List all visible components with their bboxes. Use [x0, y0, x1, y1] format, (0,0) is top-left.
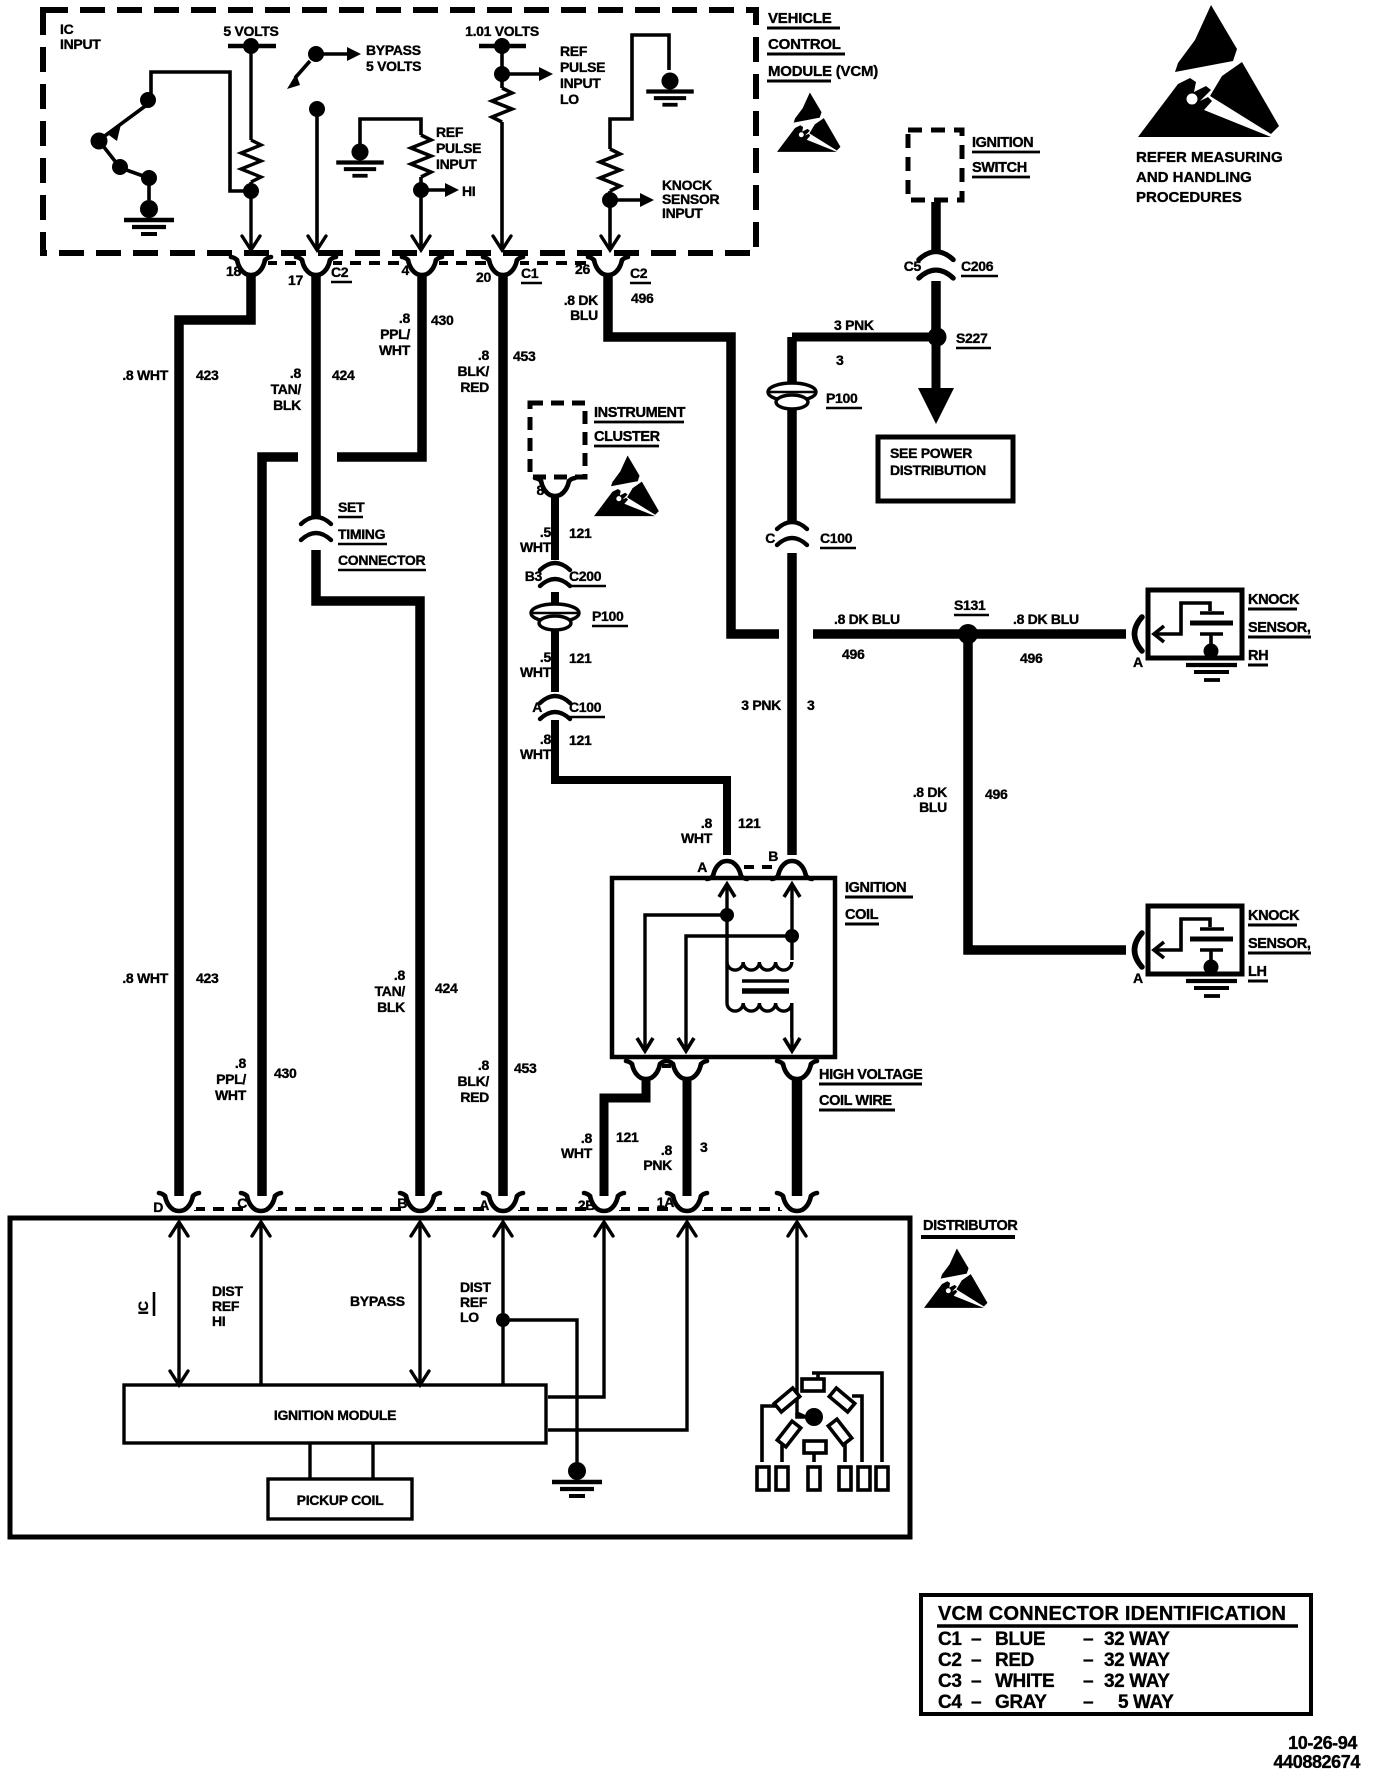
splice S131 [954, 597, 989, 644]
REF PULSE INPUT HI network [360, 119, 446, 249]
svg-text:C2: C2 [630, 265, 648, 281]
ignition coil box [612, 878, 835, 1057]
svg-text:INSTRUMENT: INSTRUMENT [594, 405, 686, 421]
svg-text:C200: C200 [569, 568, 602, 584]
svg-text:WHT: WHT [520, 664, 552, 680]
primary winding [727, 962, 792, 970]
svg-text:453: 453 [514, 1060, 537, 1076]
svg-text:C5: C5 [904, 258, 922, 274]
svg-text:.8: .8 [478, 1057, 490, 1073]
ref pulse lo branch [492, 46, 540, 249]
svg-text:P100: P100 [826, 390, 858, 406]
svg-text:–: – [971, 1650, 981, 1671]
svg-text:C2: C2 [938, 1650, 962, 1671]
svg-text:424: 424 [332, 367, 355, 383]
node 1.01 VOLTS [465, 23, 539, 54]
svg-text:.8 DK BLU: .8 DK BLU [1013, 611, 1079, 627]
svg-text:BLK: BLK [273, 397, 301, 413]
wire 453 BLK/RED : pin20 to distributor A [498, 274, 508, 1202]
VCM dashed box [43, 10, 756, 253]
svg-text:B3: B3 [525, 568, 543, 584]
svg-text:CONNECTOR: CONNECTOR [338, 552, 425, 568]
svg-text:.5: .5 [540, 649, 552, 665]
distributor pin dashes [194, 1207, 782, 1211]
svg-text:PPL/: PPL/ [216, 1071, 246, 1087]
svg-text:18: 18 [226, 263, 241, 279]
svg-text:A: A [479, 1197, 489, 1213]
upper-left tower [774, 1388, 799, 1412]
svg-text:REF: REF [212, 1298, 240, 1314]
svg-text:IC: IC [135, 1301, 151, 1315]
ESD symbol (cluster) [594, 455, 659, 516]
wire 430 PPL/WHT : pin4 to distributor C (break at 424 crossing) [337, 274, 422, 457]
label IC INPUT [60, 21, 101, 52]
svg-text:.8: .8 [478, 347, 490, 363]
date stamp [1274, 1733, 1361, 1772]
svg-text:IC: IC [60, 21, 74, 37]
splice S227 [928, 328, 992, 349]
svg-text:PPL/: PPL/ [380, 326, 410, 342]
pickup coil box [268, 1443, 412, 1519]
ESD symbol (VCM) [777, 92, 840, 151]
svg-text:453: 453 [513, 348, 536, 364]
svg-text:32 WAY: 32 WAY [1104, 1629, 1170, 1650]
svg-text:121: 121 [569, 732, 592, 748]
resistor (5 volts pullup) [241, 46, 261, 234]
coil internals [637, 884, 800, 1051]
svg-text:C2: C2 [331, 264, 349, 280]
svg-text:COIL WIRE: COIL WIRE [819, 1093, 892, 1109]
connector C5 / C206 [904, 252, 998, 278]
svg-text:IGNITION: IGNITION [972, 135, 1033, 151]
svg-text:3: 3 [836, 352, 844, 368]
wire ignition switch down [931, 202, 941, 252]
svg-text:B: B [768, 848, 778, 864]
bottom tower [804, 1441, 826, 1453]
svg-text:LH: LH [1248, 964, 1267, 980]
svg-text:SWITCH: SWITCH [972, 160, 1027, 176]
coil pin A [697, 859, 747, 879]
lower-right tower [828, 1419, 851, 1445]
cluster pin 8 [535, 478, 575, 498]
svg-text:–: – [1083, 1671, 1093, 1692]
svg-text:496: 496 [1020, 650, 1043, 666]
svg-text:P100: P100 [592, 608, 624, 624]
pin 26 / C2 [575, 257, 651, 283]
svg-text:–: – [971, 1629, 981, 1650]
svg-text:.8 WHT: .8 WHT [122, 367, 168, 383]
svg-text:LO: LO [560, 91, 579, 107]
svg-text:TAN/: TAN/ [375, 983, 406, 999]
IC input switch contacts [91, 92, 158, 186]
svg-text:D: D [153, 1199, 163, 1215]
svg-text:SENSOR,: SENSOR, [1248, 936, 1311, 952]
signal labels [135, 1279, 491, 1329]
node: knock sensor input junction [602, 192, 618, 208]
svg-text:CLUSTER: CLUSTER [594, 429, 661, 445]
svg-text:TAN/: TAN/ [271, 381, 302, 397]
svg-text:C3: C3 [938, 1671, 962, 1692]
svg-text:423: 423 [196, 970, 219, 986]
svg-text:WHITE: WHITE [995, 1671, 1054, 1692]
VCM pin row: connector dashes [266, 261, 593, 265]
svg-text:32 WAY: 32 WAY [1104, 1650, 1170, 1671]
node: ref pulse hi junction [413, 182, 429, 198]
core [742, 979, 789, 982]
svg-text:–: – [971, 1671, 981, 1692]
wire 3 PNK vertical to coil [787, 337, 797, 855]
label VEHICLE CONTROL MODULE (VCM) [767, 10, 878, 81]
svg-text:C1: C1 [938, 1629, 962, 1650]
svg-text:423: 423 [196, 367, 219, 383]
svg-text:.5: .5 [540, 524, 552, 540]
svg-text:C100: C100 [569, 699, 602, 715]
svg-text:IGNITION MODULE: IGNITION MODULE [274, 1407, 396, 1423]
svg-text:BYPASS: BYPASS [350, 1293, 405, 1309]
svg-text:.8: .8 [701, 815, 713, 831]
ignition switch dashed box [908, 130, 962, 200]
ground (knock ref) [646, 72, 694, 104]
node: 5V resistor / IC junction [243, 183, 259, 199]
svg-text:C: C [765, 530, 775, 546]
svg-text:KNOCK: KNOCK [1248, 592, 1300, 608]
svg-text:20: 20 [476, 269, 491, 285]
svg-text:8: 8 [537, 482, 545, 498]
ground (distributor) [552, 1462, 602, 1496]
svg-text:440882674: 440882674 [1274, 1752, 1361, 1772]
distributor box [10, 1218, 910, 1537]
ground (IC input) [124, 200, 174, 234]
node 5 VOLTS [223, 23, 278, 54]
svg-text:BYPASS: BYPASS [366, 42, 421, 58]
high voltage coil wire [792, 1078, 803, 1202]
pin 18 [226, 257, 271, 279]
svg-text:CONTROL: CONTROL [768, 36, 841, 53]
svg-text:DISTRIBUTOR: DISTRIBUTOR [923, 1218, 1018, 1234]
wire 423 WHT : pin18 to distributor D [179, 274, 251, 1202]
svg-text:C100: C100 [820, 530, 853, 546]
svg-text:A: A [532, 699, 542, 715]
wire 121 coil to 2B [604, 1078, 646, 1202]
svg-text:REF: REF [460, 1294, 488, 1310]
svg-text:PICKUP COIL: PICKUP COIL [297, 1492, 384, 1508]
svg-text:REF: REF [560, 43, 588, 59]
svg-text:C206: C206 [961, 258, 994, 274]
svg-text:BLU: BLU [570, 307, 598, 323]
lower-left tower [777, 1421, 800, 1447]
svg-text:–: – [1083, 1692, 1093, 1713]
svg-text:GRAY: GRAY [995, 1692, 1047, 1713]
wire arrow into pin 18 [242, 236, 260, 250]
svg-text:PROCEDURES: PROCEDURES [1136, 189, 1242, 206]
knock sensor LH [1135, 906, 1243, 996]
knock sensor RH [1135, 590, 1243, 680]
bypass pin wire [308, 101, 326, 250]
wire 496 DK BLU : pin26 to S131 [608, 274, 779, 634]
svg-text:RED: RED [995, 1650, 1034, 1671]
svg-text:–: – [1083, 1629, 1093, 1650]
svg-text:496: 496 [631, 290, 654, 306]
svg-text:DISTRIBUTION: DISTRIBUTION [890, 462, 986, 478]
svg-text:WHT: WHT [520, 746, 552, 762]
terminals [757, 1467, 769, 1490]
svg-text:.8: .8 [399, 310, 411, 326]
svg-text:121: 121 [738, 815, 761, 831]
svg-text:WHT: WHT [215, 1087, 247, 1103]
svg-text:LO: LO [460, 1309, 479, 1325]
svg-text:.8: .8 [540, 731, 552, 747]
svg-text:496: 496 [842, 646, 865, 662]
svg-text:5 VOLTS: 5 VOLTS [366, 58, 421, 74]
svg-text:4: 4 [402, 262, 410, 278]
svg-text:B: B [397, 1195, 407, 1211]
svg-text:KNOCK: KNOCK [1248, 908, 1300, 924]
svg-text:121: 121 [569, 525, 592, 541]
internal lines to ignition module [179, 1224, 806, 1430]
node: coil primary B junction [785, 929, 799, 943]
coil bottom pins [626, 1061, 666, 1079]
svg-text:.8: .8 [290, 365, 302, 381]
svg-text:HI: HI [212, 1313, 225, 1329]
wire 3 PNK horizontal [792, 333, 932, 342]
svg-text:S227: S227 [956, 330, 988, 346]
svg-text:SET: SET [338, 499, 365, 515]
svg-text:A: A [1133, 970, 1143, 986]
SEE POWER DISTRIBUTION box [878, 437, 1013, 501]
svg-text:INPUT: INPUT [60, 36, 101, 52]
svg-text:SEE POWER: SEE POWER [890, 445, 972, 461]
connector C200 [525, 563, 606, 586]
dist ref lo ground branch [503, 1320, 577, 1462]
svg-text:2B: 2B [578, 1197, 595, 1213]
svg-text:121: 121 [616, 1129, 639, 1145]
svg-text:A: A [697, 859, 707, 875]
svg-text:3: 3 [807, 697, 815, 713]
svg-text:S131: S131 [954, 597, 986, 613]
svg-text:C: C [237, 1195, 247, 1211]
label HIGH VOLTAGE COIL WIRE [819, 1067, 923, 1110]
svg-text:–: – [971, 1692, 981, 1713]
wire 424 TAN/BLK : pin17 to distributor B [311, 274, 321, 516]
svg-text:.8: .8 [661, 1142, 673, 1158]
svg-text:.8 DK BLU: .8 DK BLU [834, 611, 900, 627]
svg-text:WHT: WHT [561, 1145, 593, 1161]
svg-text:HIGH VOLTAGE: HIGH VOLTAGE [819, 1067, 923, 1083]
svg-text:5 WAY: 5 WAY [1118, 1692, 1174, 1713]
svg-text:INPUT: INPUT [436, 156, 477, 172]
svg-text:3: 3 [700, 1139, 708, 1155]
svg-text:.8 DK: .8 DK [564, 292, 598, 308]
svg-text:BLK: BLK [377, 999, 405, 1015]
svg-text:BLU: BLU [919, 799, 947, 815]
svg-text:DIST: DIST [460, 1279, 491, 1295]
VCM module boundary [43, 10, 756, 253]
IC input switch chain [100, 72, 247, 200]
svg-text:RED: RED [460, 1089, 489, 1105]
svg-text:.8: .8 [581, 1130, 593, 1146]
svg-text:AND HANDLING: AND HANDLING [1136, 169, 1252, 186]
svg-text:BLK/: BLK/ [458, 363, 490, 379]
grommet P100 (cluster) [531, 604, 628, 630]
svg-text:430: 430 [274, 1065, 297, 1081]
svg-text:WHT: WHT [379, 342, 411, 358]
svg-text:5 VOLTS: 5 VOLTS [223, 23, 278, 39]
KNOCK SENSOR INPUT network [600, 35, 669, 249]
svg-text:RED: RED [460, 379, 489, 395]
svg-text:INPUT: INPUT [560, 75, 601, 91]
svg-text:IGNITION: IGNITION [845, 880, 906, 896]
svg-text:MODULE (VCM): MODULE (VCM) [768, 63, 878, 80]
pin 4 [402, 257, 443, 278]
svg-text:.8: .8 [235, 1055, 247, 1071]
svg-text:.8 WHT: .8 WHT [122, 970, 168, 986]
svg-text:1A: 1A [657, 1194, 674, 1210]
ESD symbol (distributor) [924, 1248, 987, 1307]
svg-text:430: 430 [431, 312, 454, 328]
svg-text:PULSE: PULSE [436, 140, 481, 156]
top tower [812, 1373, 882, 1462]
mid wire labels [122, 967, 537, 1105]
svg-text:WHT: WHT [681, 830, 713, 846]
svg-text:VEHICLE: VEHICLE [768, 10, 832, 27]
svg-text:PULSE: PULSE [560, 59, 605, 75]
node: dist ref lo ground junction [496, 1313, 510, 1327]
upper-right tower [829, 1388, 854, 1412]
svg-text:26: 26 [575, 261, 590, 277]
svg-text:3 PNK: 3 PNK [834, 317, 874, 333]
BYPASS 5 VOLTS switch [287, 42, 421, 89]
pin 20 / C1 [476, 257, 542, 285]
svg-text:121: 121 [569, 650, 592, 666]
svg-text:17: 17 [288, 272, 303, 288]
pin 17 / C2 [288, 257, 352, 288]
svg-text:A: A [1133, 654, 1143, 670]
svg-text:BLK/: BLK/ [458, 1073, 490, 1089]
svg-text:C4: C4 [938, 1692, 962, 1713]
svg-text:C1: C1 [521, 265, 539, 281]
wire 3 PNK coil to 1A [683, 1078, 692, 1202]
node: ref pulse lo junction [494, 66, 510, 82]
svg-text:COIL: COIL [845, 907, 879, 923]
svg-text:DIST: DIST [212, 1283, 243, 1299]
svg-text:VCM CONNECTOR IDENTIFICATION: VCM CONNECTOR IDENTIFICATION [938, 1603, 1286, 1625]
secondary winding [727, 1003, 792, 1011]
svg-text:496: 496 [985, 786, 1008, 802]
svg-text:.8 DK: .8 DK [913, 784, 947, 800]
big ESD logo [1138, 5, 1279, 137]
svg-text:3 PNK: 3 PNK [741, 697, 781, 713]
svg-text:BLUE: BLUE [995, 1629, 1045, 1650]
node: coil primary A junction [720, 908, 734, 922]
big arrow to power distribution [932, 342, 941, 388]
svg-text:REFER MEASURING: REFER MEASURING [1136, 149, 1283, 166]
coil pin B [768, 848, 812, 879]
svg-text:424: 424 [435, 980, 458, 996]
svg-text:1.01 VOLTS: 1.01 VOLTS [465, 23, 539, 39]
svg-text:10-26-94: 10-26-94 [1288, 1733, 1357, 1753]
grommet P100 (pnk) [768, 383, 862, 409]
svg-text:INPUT: INPUT [662, 205, 703, 221]
connector C100 (pnk) [765, 522, 856, 548]
svg-text:REF: REF [436, 124, 464, 140]
ground (ref hi) [336, 143, 384, 175]
svg-text:–: – [1083, 1650, 1093, 1671]
ignition module box [124, 1385, 546, 1443]
connector C100 (cluster) [532, 696, 605, 719]
svg-text:.8: .8 [394, 967, 406, 983]
top wire labels [122, 290, 654, 413]
svg-text:PNK: PNK [643, 1157, 672, 1173]
svg-text:TIMING: TIMING [338, 526, 386, 542]
svg-text:32 WAY: 32 WAY [1104, 1671, 1170, 1692]
SET TIMING CONNECTOR on wire 424 [301, 499, 426, 570]
cluster wire 121 [555, 495, 727, 855]
svg-text:RH: RH [1248, 648, 1268, 664]
distributor cap [757, 1373, 888, 1490]
rotor dot [805, 1408, 823, 1426]
svg-text:WHT: WHT [520, 539, 552, 555]
pins D C B A 2B 1A HV [153, 1193, 199, 1215]
svg-text:HI: HI [462, 183, 475, 199]
svg-text:SENSOR,: SENSOR, [1248, 620, 1311, 636]
